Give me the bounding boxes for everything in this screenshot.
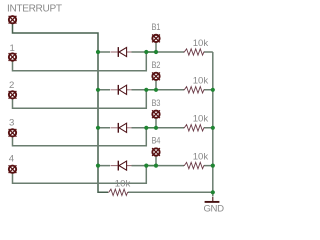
junction column x=98 row2 <box>96 88 100 92</box>
pin symbol button B2 <box>152 72 160 80</box>
pin symbol button B4 <box>152 148 160 156</box>
wire button B2 stem <box>155 80 157 90</box>
junction button stem row1 <box>154 50 158 54</box>
diode D1 <box>111 47 132 57</box>
svg-text:10k: 10k <box>193 151 209 162</box>
wire row 4 segments <box>98 165 213 167</box>
svg-text:GND: GND <box>204 204 225 215</box>
junction rail bottom / GND <box>211 190 215 194</box>
wire row 2 segments <box>98 89 213 91</box>
wire button B1 stem <box>155 42 157 52</box>
svg-text:3: 3 <box>9 117 14 128</box>
svg-text:10k: 10k <box>115 178 131 189</box>
wire right GND rail <box>212 52 214 192</box>
pin symbol 1 <box>9 53 17 61</box>
svg-text:2: 2 <box>9 80 14 91</box>
wire pin 2 run to riser up to row 2 <box>13 90 147 108</box>
wire button B3 stem <box>155 118 157 128</box>
junction riser row4 <box>144 164 148 168</box>
junction column x=98 row1 <box>96 50 100 54</box>
wire INTERRUPT net: pin stem, top run, left column down to bottom resistor <box>13 24 109 192</box>
junction column x=98 row3 <box>96 126 100 130</box>
junction column x=98 row4 <box>96 164 100 168</box>
wire junction bridge row 52 <box>146 51 156 53</box>
junction button stem row3 <box>154 126 158 130</box>
wire junction bridge row 89.8 <box>146 89 156 91</box>
junction riser row3 <box>144 126 148 130</box>
svg-text:10k: 10k <box>193 114 209 125</box>
junction riser row2 <box>144 88 148 92</box>
svg-text:4: 4 <box>9 153 15 164</box>
wire row 1 segments <box>98 51 213 53</box>
svg-text:INTERRUPT: INTERRUPT <box>7 4 62 15</box>
junction riser row1 <box>144 50 148 54</box>
svg-text:B4: B4 <box>152 136 162 147</box>
svg-text:10k: 10k <box>193 76 209 87</box>
wire junction bridge row 165.6 <box>146 165 156 167</box>
pin symbol 2 <box>9 91 17 99</box>
ground symbol <box>205 197 220 202</box>
resistor R1 10k <box>184 49 205 55</box>
pin symbol button B3 <box>152 110 160 118</box>
wire row 3 segments <box>98 127 213 129</box>
wire bottom row from resistor to rail <box>128 191 213 193</box>
svg-text:1: 1 <box>10 43 15 54</box>
svg-text:10k: 10k <box>193 38 209 49</box>
wire GND stub <box>212 192 214 196</box>
wire junction bridge row 127.8 <box>146 127 156 129</box>
diode D4 <box>111 161 132 171</box>
wire pin 3 run to riser up to row 3 <box>13 128 147 146</box>
pin symbol 3 <box>9 129 17 137</box>
wire pin 1 run to riser up to row 1 <box>13 52 147 71</box>
resistor R2 10k <box>184 87 205 93</box>
wire button B4 stem <box>155 156 157 166</box>
junction rail row3 <box>211 126 215 130</box>
resistor R3 10k <box>184 125 205 131</box>
pin symbol 4 <box>9 165 17 173</box>
resistor R5 10k (bottom pullup) <box>108 189 128 195</box>
svg-text:B1: B1 <box>152 22 161 33</box>
junction button stem row2 <box>154 88 158 92</box>
diode D3 <box>111 123 132 133</box>
junction button stem row4 <box>154 164 158 168</box>
diode D2 <box>111 85 132 95</box>
resistor R4 10k <box>184 162 205 168</box>
svg-text:B3: B3 <box>152 98 161 109</box>
junction rail row4 <box>211 164 215 168</box>
svg-text:B2: B2 <box>152 60 161 71</box>
junction rail row2 <box>211 88 215 92</box>
wire pin 4 run to riser up to row 4 <box>13 166 147 184</box>
pin symbol button B1 <box>152 35 160 43</box>
pin symbol INTERRUPT <box>9 16 17 24</box>
